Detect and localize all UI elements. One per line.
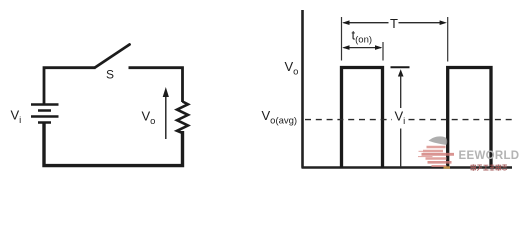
V_i dimension up arrowhead <box>398 69 404 76</box>
T dimension right arrowhead <box>440 20 447 25</box>
pulse 1 outline <box>342 68 383 168</box>
svg-text:T: T <box>390 16 398 31</box>
pulse 2 outline <box>448 68 491 168</box>
t(on) left arrowhead <box>342 45 349 50</box>
t(on) dimension line <box>344 47 382 49</box>
battery V_i plates <box>31 105 59 123</box>
extension line pulse1 left <box>341 17 343 61</box>
T dimension left arrowhead <box>342 20 349 25</box>
T dimension line <box>344 22 444 24</box>
svg-text:S: S <box>106 68 114 82</box>
extension line pulse1 right <box>382 42 384 61</box>
EEWORLD watermark icon <box>418 136 454 167</box>
wire: battery bottom, bottom wire, right vertical lower <box>44 124 183 166</box>
extension line pulse2 left <box>447 17 449 62</box>
switch S blade <box>95 45 130 68</box>
EEWORLD watermark chinese caption <box>471 164 507 171</box>
wire: switch right terminal to top-right corner down to resistor top <box>129 68 183 102</box>
wire: top-left loop (left vertical upper + top wire to switch pivot) <box>44 68 96 105</box>
svg-text:EEWORLD: EEWORLD <box>459 150 520 162</box>
V_o arrow line <box>165 94 167 139</box>
graph horizontal baseline <box>302 166 513 169</box>
dashed V_o(avg) level line <box>305 119 392 121</box>
resistor R zigzag <box>177 102 188 134</box>
V_i dimension top tick <box>391 66 410 68</box>
V_i dimension line <box>400 75 402 168</box>
V_o arrowhead <box>163 87 169 97</box>
t(on) right arrowhead <box>375 45 382 50</box>
graph vertical axis <box>301 10 304 168</box>
